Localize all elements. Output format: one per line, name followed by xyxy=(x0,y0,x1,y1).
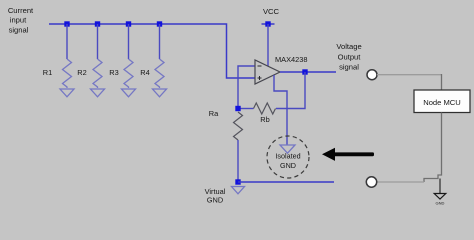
svg-text:R3: R3 xyxy=(109,68,118,77)
svg-text:input: input xyxy=(10,16,27,25)
wire: R2 drop xyxy=(97,24,99,59)
wire: virtual ground rail xyxy=(238,181,334,183)
node dot output xyxy=(302,69,307,74)
annotation arrow pointing at isolated GND xyxy=(322,148,374,161)
svg-text:Rb: Rb xyxy=(260,115,269,124)
node dot R2 tap xyxy=(95,21,100,26)
svg-text:signal: signal xyxy=(339,63,359,72)
svg-text:Current: Current xyxy=(8,6,34,15)
ground (R4) xyxy=(153,89,167,97)
resistor R2 xyxy=(93,59,102,88)
label Isolated GND xyxy=(275,152,300,171)
resistor R3 xyxy=(124,59,133,88)
resistor R4 xyxy=(155,59,164,88)
svg-text:VCC: VCC xyxy=(263,7,280,16)
wire: Node MCU down to bottom connector xyxy=(424,113,442,183)
node dot feedback (Ra/Rb junction) xyxy=(235,106,240,111)
node dot VCC xyxy=(265,21,270,26)
wire: R1 drop xyxy=(66,24,68,59)
node label: Current input signal xyxy=(8,6,34,35)
svg-text:R4: R4 xyxy=(140,68,149,77)
node dot virtual ground xyxy=(235,179,240,184)
ground (R2) xyxy=(91,89,105,97)
svg-text:GND: GND xyxy=(207,196,223,205)
wire: inverting input from feedback node xyxy=(238,66,255,109)
ground (R3) xyxy=(122,89,136,97)
wire: VCC to op-amp V+ pin xyxy=(267,24,269,67)
node dot R3 tap xyxy=(126,21,131,26)
dashed enclosure: isolated GND xyxy=(267,136,309,178)
node dot R1 tap xyxy=(64,21,69,26)
svg-text:R1: R1 xyxy=(43,68,52,77)
wire: op-amp output xyxy=(280,71,336,73)
wire: op-amp V- pin to isolated ground xyxy=(274,75,287,145)
label Virtual GND xyxy=(205,187,226,205)
wire: feedback from output down to Rb xyxy=(276,72,305,109)
svg-text:Voltage: Voltage xyxy=(336,42,361,51)
power VCC bar xyxy=(262,23,275,25)
terminal: output connector xyxy=(367,70,377,80)
wire: drop to GND xyxy=(439,179,441,194)
ground GND (MCU) xyxy=(434,194,446,200)
svg-text:GND: GND xyxy=(436,201,445,206)
wire: output connector to Node MCU xyxy=(377,74,442,76)
block: Node MCU xyxy=(414,90,470,113)
wire: R3 drop xyxy=(128,24,130,59)
wire: Ra bottom to virtual ground xyxy=(237,140,239,182)
op-amp U1 MAX4238 xyxy=(255,60,280,84)
wire: Rb left to feedback node xyxy=(238,108,254,110)
ground (isolated GND symbol) xyxy=(280,145,295,153)
svg-text:signal: signal xyxy=(9,26,29,35)
node dot R4 tap xyxy=(157,21,162,26)
svg-text:MAX4238: MAX4238 xyxy=(275,55,307,64)
terminal: bottom connector xyxy=(366,177,376,187)
svg-text:Isolated: Isolated xyxy=(275,152,300,161)
resistor R1 xyxy=(63,59,72,88)
resistor Ra xyxy=(234,112,243,140)
svg-text:GND: GND xyxy=(280,161,296,170)
wire: R4 drop xyxy=(159,24,161,59)
ground (R1) xyxy=(60,89,74,97)
ground (virtual GND symbol) xyxy=(232,187,245,194)
svg-text:Output: Output xyxy=(338,53,362,62)
node label: Voltage Output signal xyxy=(336,42,361,72)
wire: top input rail to op-amp + input xyxy=(49,24,255,78)
svg-text:Ra: Ra xyxy=(209,109,219,118)
svg-text:Node MCU: Node MCU xyxy=(423,98,461,107)
svg-text:R2: R2 xyxy=(77,68,86,77)
resistor Rb xyxy=(254,103,276,114)
